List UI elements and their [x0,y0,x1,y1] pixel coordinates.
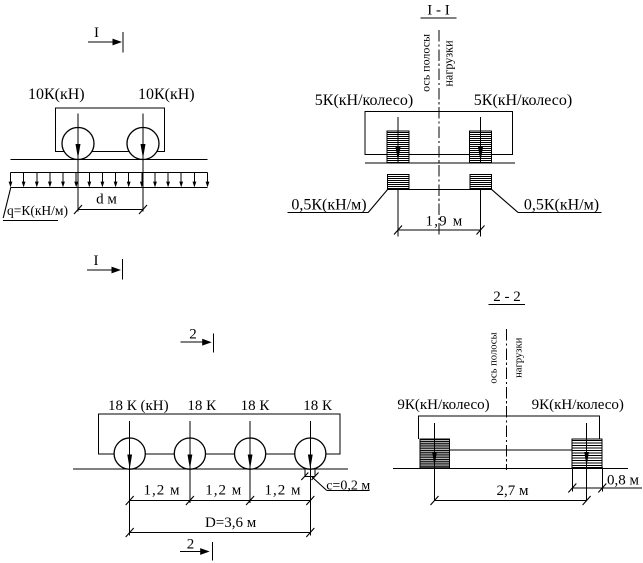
svg-text:10К(кН): 10К(кН) [28,86,85,103]
svg-text:1,2 м: 1,2 м [265,483,302,499]
svg-text:9К(кН/колесо): 9К(кН/колесо) [532,397,624,413]
svg-text:нагрузки: нагрузки [513,337,524,378]
svg-text:5К(кН/колесо): 5К(кН/колесо) [474,92,572,109]
svg-text:0,5К(кН/м): 0,5К(кН/м) [524,197,599,214]
svg-text:ось полосы: ось полосы [489,332,500,383]
svg-text:18 К: 18 К [187,398,217,414]
svg-text:I: I [94,25,99,41]
svg-text:18 К (кН): 18 К (кН) [108,398,169,414]
svg-text:I: I [94,253,99,269]
svg-text:18 К: 18 К [241,398,271,414]
svg-text:d м: d м [96,192,117,208]
svg-text:2: 2 [187,537,195,553]
svg-text:q=К(кН/м): q=К(кН/м) [7,203,68,218]
svg-text:0,5К(кН/м): 0,5К(кН/м) [291,197,366,214]
svg-text:0,8 м: 0,8 м [607,473,640,489]
svg-text:9К(кН/колесо): 9К(кН/колесо) [397,397,489,413]
svg-text:нагрузки: нагрузки [441,40,455,87]
svg-text:1,9 м: 1,9 м [426,213,464,229]
svg-text:D=3,6 м: D=3,6 м [205,515,257,531]
svg-text:10К(кН): 10К(кН) [138,86,195,103]
svg-text:5К(кН/колесо): 5К(кН/колесо) [315,92,413,109]
svg-text:2: 2 [189,327,197,343]
svg-text:1,2 м: 1,2 м [205,483,242,499]
svg-text:c=0,2 м: c=0,2 м [326,478,370,493]
svg-text:18 К: 18 К [303,398,333,414]
svg-text:1,2 м: 1,2 м [144,483,181,499]
svg-text:2,7 м: 2,7 м [497,483,530,499]
svg-text:2 - 2: 2 - 2 [493,289,521,305]
svg-text:ось полосы: ось полосы [418,34,432,92]
svg-text:I - I: I - I [427,3,450,19]
